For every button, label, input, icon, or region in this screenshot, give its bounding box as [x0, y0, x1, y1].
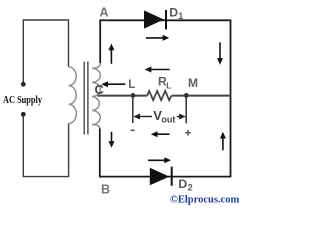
diode D1 triangle	[144, 10, 164, 28]
label minus sign	[131, 129, 135, 131]
arrow: current right above D2	[148, 159, 165, 161]
diode D2 triangle	[150, 168, 170, 186]
svg-text:L: L	[128, 79, 135, 91]
svg-text:M: M	[188, 76, 198, 90]
node: AC terminal dot upper	[21, 82, 26, 87]
svg-text:AC Supply: AC Supply	[3, 95, 42, 106]
Vout measurement tick at M	[185, 97, 187, 124]
svg-text:B: B	[101, 183, 110, 197]
node L junction dot	[131, 93, 136, 98]
arrow: current down top-right	[219, 42, 221, 58]
svg-text:out: out	[161, 115, 175, 125]
svg-text:C: C	[95, 82, 104, 97]
wire: AC supply loop lower-left (terminal down, bottom, up to primary bottom lead)	[23, 115, 68, 177]
svg-text:A: A	[100, 5, 109, 19]
diode D1 cathode bar	[165, 10, 167, 29]
svg-text:D: D	[178, 177, 187, 191]
Vout measurement tick at L	[132, 97, 134, 124]
transformer T1 core line right	[87, 62, 89, 135]
wire: main outer loop A-branch, top, right rail, bottom, B-branch	[100, 20, 231, 176]
svg-text:D: D	[169, 6, 178, 20]
arrow: current up A-branch	[110, 50, 112, 64]
arrow: current left toward C	[108, 83, 126, 85]
transformer T1 primary winding	[69, 67, 77, 124]
svg-text:2: 2	[188, 183, 193, 193]
Vout dimension arrow right	[177, 116, 180, 118]
resistor RL zigzag	[147, 91, 171, 100]
label plus sign	[185, 130, 191, 136]
transformer T1 core line left	[83, 62, 85, 135]
arrow: current left mid-upper	[151, 69, 170, 71]
svg-text:1: 1	[178, 11, 183, 21]
arrow: current up bottom-right	[222, 138, 224, 150]
node: AC terminal dot lower	[21, 112, 26, 117]
arrow: current left under Vout	[157, 133, 169, 135]
wire: center-tap output wire C to right rail with resistor gap	[98, 95, 231, 97]
arrow: current down B-branch	[111, 132, 113, 141]
diode D2 cathode bar	[171, 167, 173, 186]
svg-text:L: L	[166, 80, 171, 90]
node M junction dot	[184, 93, 189, 98]
transformer T1 secondary winding	[92, 63, 100, 129]
arrow: current right under D1	[146, 37, 163, 39]
Vout dimension arrow left	[139, 116, 152, 118]
wire: AC supply loop upper-left (terminal to box top to primary top lead)	[23, 20, 68, 84]
svg-text:©Elprocus.com: ©Elprocus.com	[170, 195, 239, 206]
